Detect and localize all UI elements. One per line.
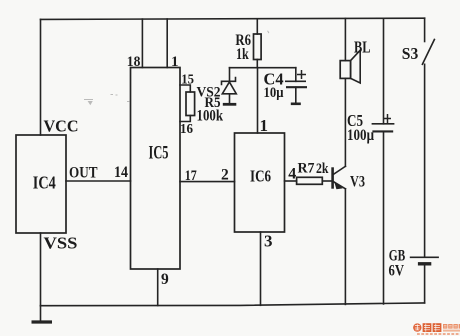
node OUT label: [69, 164, 98, 181]
wire V3 emitter to ground bus: [344, 189, 346, 305]
pin 4 label: [288, 165, 296, 182]
pin 18 label: [127, 54, 141, 70]
battery GB: [389, 247, 439, 279]
wire IC5 pin 9 to ground bus: [157, 269, 159, 306]
svg-text:1: 1: [171, 54, 179, 70]
wire junction to IC6 pin 1: [257, 68, 259, 133]
capacitor C5: [372, 124, 395, 304]
pin 3 label: [264, 231, 273, 250]
pin 9 label: [161, 271, 169, 288]
wire IC4 bottom to ground bus: [40, 233, 42, 306]
resistor R5: [186, 92, 195, 116]
svg-text:4: 4: [288, 165, 296, 182]
svg-text:16: 16: [180, 122, 193, 137]
C5 label: [347, 111, 374, 144]
pin 1 label IC5: [171, 54, 179, 70]
svg-text:18: 18: [127, 54, 141, 70]
pin 14 label: [114, 164, 128, 181]
node VSS label: [44, 234, 78, 253]
wire IC5 pin 18 to top bus: [141, 19, 143, 67]
pin 16 label: [180, 122, 193, 137]
svg-text:1k: 1k: [236, 46, 249, 63]
C4 label: [264, 70, 284, 101]
node VCC label: [44, 116, 79, 135]
wire R5 bottom to IC5 pin 16: [180, 116, 190, 122]
svg-text:3: 3: [264, 231, 273, 250]
V3 label: [350, 174, 365, 191]
transistor V3: [333, 166, 346, 189]
wire switch to battery GB: [424, 64, 426, 256]
op-amp IC4: [16, 135, 66, 233]
wire left vertical from top bus to IC4: [40, 19, 42, 135]
wire IC5 pin 17 to IC6 pin 2: [180, 181, 235, 183]
svg-text:OUT: OUT: [69, 164, 98, 181]
wire top bus to R6: [256, 19, 258, 34]
wire bottom ground bus: [41, 303, 425, 306]
wire top bus to speaker BL: [344, 19, 346, 61]
wire IC6 pin 4 to R7: [285, 180, 297, 182]
svg-text:10μ: 10μ: [264, 85, 284, 101]
svg-text:S3: S3: [402, 44, 419, 63]
svg-text:VCC: VCC: [44, 116, 79, 135]
wire IC5 pin 15 stub to R5: [180, 85, 190, 92]
scan smudge marks: [84, 31, 269, 105]
pin 2 label: [221, 166, 229, 183]
svg-text:1: 1: [260, 116, 269, 135]
wire top bus right corner down to switch S3: [424, 18, 426, 41]
svg-text:IC6: IC6: [250, 166, 271, 185]
svg-text:2: 2: [221, 166, 229, 183]
watermark logo: [413, 323, 460, 335]
wire junction node VS2/R6/C4: [230, 67, 296, 69]
pin 1 label IC6: [260, 116, 269, 135]
op-amp IC6: [235, 133, 285, 232]
svg-text:6V: 6V: [389, 262, 405, 279]
C4 plus polarity mark: [297, 70, 306, 79]
svg-text:BL: BL: [354, 38, 371, 57]
svg-text:V3: V3: [350, 174, 365, 191]
svg-text:14: 14: [114, 164, 128, 181]
switch S3: [402, 40, 435, 65]
svg-text:R7: R7: [298, 160, 315, 176]
wire IC6 pin 3 to ground bus: [260, 232, 262, 305]
svg-text:100k: 100k: [197, 107, 224, 124]
ground: [32, 306, 53, 322]
svg-text:VSS: VSS: [44, 234, 78, 253]
resistor R7: [297, 160, 329, 184]
op-amp IC5: [131, 68, 181, 270]
zener diode VS2: [222, 68, 237, 105]
wire R6 bottom to junction: [256, 60, 258, 68]
svg-text:IC4: IC4: [33, 172, 56, 192]
capacitor C4: [285, 68, 307, 104]
R5 value label: [197, 95, 224, 125]
svg-text:100μ: 100μ: [347, 127, 374, 144]
speaker BL: [340, 38, 370, 83]
wire top bus to C5: [383, 18, 385, 123]
wire R7 to V3 base: [322, 180, 331, 182]
wire OUT from IC4 pin to IC5 pin 14: [66, 180, 131, 182]
pin 15 label: [181, 72, 194, 87]
wire battery to ground bus: [424, 265, 426, 303]
wire IC5 pin 1 to top bus: [166, 19, 168, 68]
resistor R6: [235, 32, 261, 63]
svg-text:2k: 2k: [316, 161, 329, 177]
wire top supply bus: [41, 18, 425, 19]
VS2 label: [197, 85, 221, 101]
C5 plus polarity mark: [384, 114, 391, 123]
svg-text:IC5: IC5: [149, 142, 169, 163]
wire speaker to V3 collector: [344, 78, 346, 166]
svg-text:9: 9: [161, 271, 169, 288]
pin 17 label: [185, 168, 197, 184]
